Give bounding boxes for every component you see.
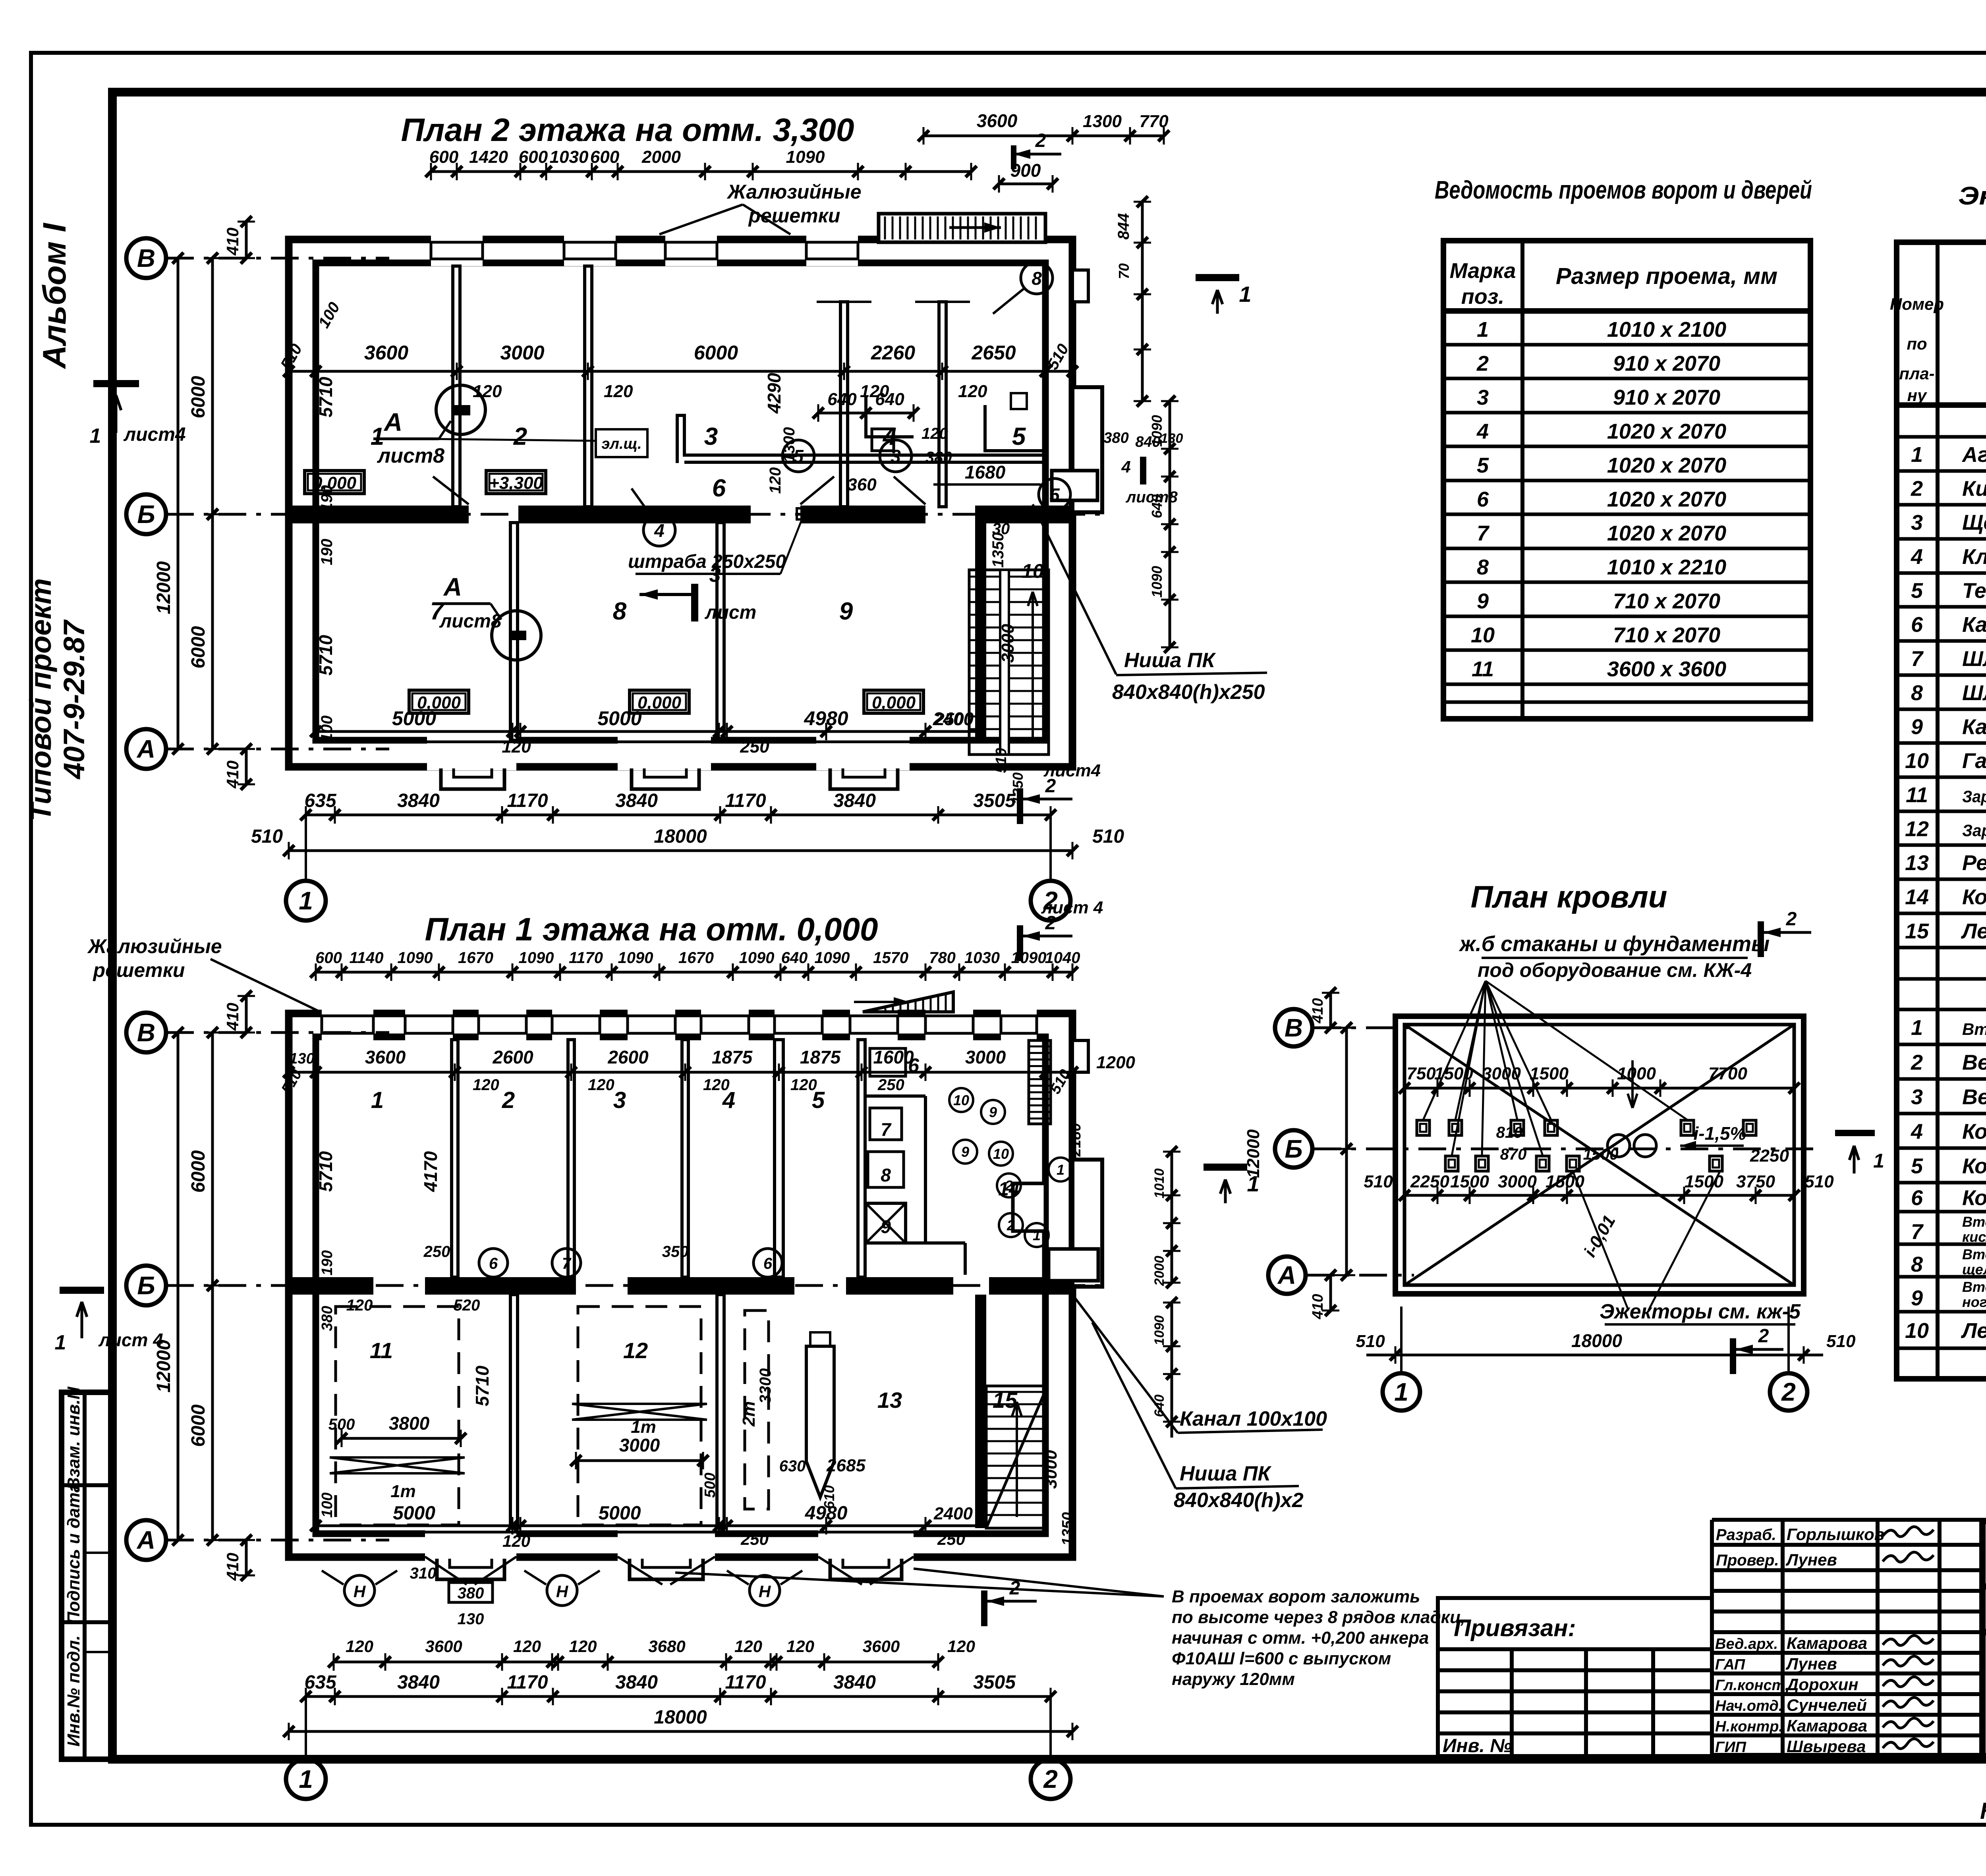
svg-text:5710: 5710	[315, 376, 336, 417]
svg-text:1: 1	[1239, 282, 1251, 307]
svg-text:410: 410	[223, 1553, 242, 1581]
svg-text:Н: Н	[556, 1582, 569, 1601]
svg-text:120: 120	[958, 382, 987, 401]
svg-text:Шлюз душевой: Шлюз душевой	[1962, 681, 1986, 705]
svg-text:1420: 1420	[469, 147, 508, 167]
svg-text:18000: 18000	[1571, 1330, 1622, 1351]
svg-text:2: 2	[1911, 477, 1923, 501]
svg-text:1020 x 2070: 1020 x 2070	[1607, 420, 1726, 444]
svg-text:эл.щ.: эл.щ.	[601, 436, 641, 452]
svg-text:Б: Б	[137, 500, 155, 529]
svg-text:8: 8	[1477, 556, 1489, 579]
svg-text:1т: 1т	[631, 1417, 656, 1437]
svg-text:407-9-29.87: 407-9-29.87	[58, 619, 91, 780]
svg-text:лист4: лист4	[123, 424, 185, 445]
svg-text:8: 8	[1911, 681, 1923, 705]
svg-text:1090: 1090	[1149, 566, 1165, 598]
svg-text:Горлышков: Горлышков	[1787, 1525, 1884, 1544]
svg-text:7: 7	[881, 1119, 892, 1140]
svg-text:18000: 18000	[654, 826, 707, 847]
svg-text:7: 7	[1911, 1220, 1924, 1244]
svg-text:поз.: поз.	[1461, 285, 1505, 309]
svg-text:3800: 3800	[389, 1413, 430, 1434]
svg-text:9: 9	[1911, 1286, 1923, 1310]
svg-text:5000: 5000	[393, 1503, 435, 1524]
svg-text:11: 11	[370, 1338, 393, 1363]
svg-text:3: 3	[704, 423, 718, 450]
svg-text:6000: 6000	[188, 1150, 209, 1193]
svg-text:120: 120	[734, 1637, 762, 1656]
svg-text:3840: 3840	[615, 790, 658, 811]
svg-text:14: 14	[1905, 885, 1929, 909]
svg-text:6000: 6000	[694, 342, 738, 364]
svg-text:1030: 1030	[550, 147, 589, 167]
svg-text:Кабина душевой: Кабина душевой	[1962, 715, 1986, 739]
svg-text:0,000: 0,000	[638, 693, 682, 712]
svg-text:1: 1	[1477, 318, 1489, 342]
svg-text:ГИП: ГИП	[1715, 1739, 1746, 1756]
svg-text:1090: 1090	[1149, 415, 1165, 447]
svg-text:под оборудование см. КЖ-4: под оборудование см. КЖ-4	[1478, 959, 1752, 981]
svg-text:2000: 2000	[641, 147, 681, 167]
svg-text:4: 4	[1121, 457, 1130, 476]
svg-text:640: 640	[875, 390, 904, 409]
svg-text:Жалюзийные: Жалюзийные	[726, 181, 861, 203]
svg-text:1090: 1090	[1011, 949, 1047, 967]
svg-text:2т: 2т	[739, 1401, 759, 1427]
svg-text:410: 410	[223, 1003, 242, 1031]
svg-text:10: 10	[953, 1092, 969, 1108]
svg-text:910 x 2070: 910 x 2070	[1613, 386, 1720, 409]
svg-text:1300: 1300	[1083, 112, 1122, 131]
svg-text:120: 120	[947, 1637, 975, 1656]
svg-text:6000: 6000	[188, 1404, 209, 1447]
svg-text:Зарядная кислотных аккумулятор: Зарядная кислотных аккумуляторов	[1962, 787, 1986, 806]
svg-text:Кладовая: Кладовая	[1962, 545, 1986, 569]
svg-text:1т: 1т	[390, 1482, 416, 1501]
svg-text:3840: 3840	[833, 790, 876, 811]
svg-text:В: В	[137, 1018, 155, 1047]
svg-text:3: 3	[613, 1087, 626, 1113]
svg-text:1670: 1670	[678, 949, 714, 967]
svg-text:3: 3	[1911, 511, 1923, 535]
svg-text:0,000: 0,000	[872, 693, 916, 712]
svg-text:1090: 1090	[519, 949, 554, 967]
svg-text:Щелочная: Щелочная	[1962, 511, 1986, 535]
svg-text:7: 7	[562, 1255, 572, 1272]
svg-text:Ниша ПК: Ниша ПК	[1124, 649, 1216, 672]
svg-text:410: 410	[223, 228, 242, 256]
svg-text:1: 1	[1911, 1016, 1923, 1040]
svg-text:А: А	[136, 1526, 155, 1554]
svg-text:2600: 2600	[492, 1047, 533, 1067]
svg-text:380: 380	[925, 449, 952, 466]
svg-text:350: 350	[662, 1243, 689, 1260]
svg-text:Гл.конст.: Гл.конст.	[1715, 1677, 1789, 1694]
svg-text:кислотных аккумуляторов: кислотных аккумуляторов	[1962, 1229, 1986, 1245]
svg-text:1875: 1875	[712, 1047, 753, 1067]
svg-text:Привязан:: Привязан:	[1454, 1615, 1576, 1641]
svg-text:i-1,5%: i-1,5%	[1694, 1123, 1746, 1144]
svg-text:500: 500	[702, 1473, 719, 1498]
svg-text:лист: лист	[705, 602, 757, 623]
svg-text:4: 4	[654, 520, 665, 541]
svg-text:6: 6	[908, 1054, 920, 1077]
svg-text:1670: 1670	[458, 949, 493, 967]
svg-text:120: 120	[569, 1637, 597, 1656]
svg-text:1020 x 2070: 1020 x 2070	[1607, 454, 1726, 477]
svg-text:5710: 5710	[472, 1365, 493, 1406]
svg-text:600: 600	[590, 147, 620, 167]
svg-text:0,000: 0,000	[313, 473, 357, 493]
svg-text:250: 250	[423, 1243, 450, 1260]
svg-text:3600: 3600	[863, 1637, 900, 1656]
svg-text:4290: 4290	[764, 372, 784, 414]
svg-text:600: 600	[519, 147, 548, 167]
svg-text:120: 120	[502, 737, 531, 757]
svg-text:1500: 1500	[1434, 1064, 1473, 1083]
svg-text:710 x 2070: 710 x 2070	[1613, 623, 1720, 647]
svg-text:2: 2	[1043, 1765, 1058, 1793]
svg-text:640: 640	[1149, 494, 1165, 518]
svg-text:4: 4	[722, 1087, 735, 1113]
svg-text:1: 1	[371, 1087, 384, 1113]
svg-text:11: 11	[1906, 783, 1928, 807]
svg-text:130: 130	[458, 1610, 484, 1628]
svg-text:В проемах ворот заложить: В проемах ворот заложить	[1172, 1587, 1420, 1606]
svg-text:Инв. №: Инв. №	[1443, 1735, 1512, 1756]
svg-text:наружу 120мм: наружу 120мм	[1172, 1669, 1295, 1689]
svg-text:7700: 7700	[1708, 1064, 1747, 1083]
svg-text:+3,300: +3,300	[489, 473, 543, 493]
svg-text:3000: 3000	[1041, 1450, 1061, 1489]
svg-text:510: 510	[1364, 1172, 1393, 1191]
svg-text:Лестничная клетка: Лестничная клетка	[1961, 1319, 1986, 1343]
svg-text:1090: 1090	[786, 147, 825, 167]
svg-text:1090: 1090	[398, 949, 433, 967]
svg-text:План 1 этажа на отм. 0,000: План 1 этажа на отм. 0,000	[425, 911, 878, 948]
svg-text:6: 6	[712, 475, 726, 502]
svg-text:2: 2	[1476, 352, 1489, 376]
svg-text:Альбом I: Альбом I	[37, 222, 73, 369]
svg-text:Марка: Марка	[1450, 259, 1516, 283]
svg-text:5: 5	[1012, 423, 1026, 450]
svg-text:Ремонтное отделение: Ремонтное отделение	[1962, 851, 1986, 875]
svg-text:3: 3	[1477, 386, 1489, 409]
svg-text:5: 5	[1911, 579, 1923, 603]
svg-text:3600: 3600	[977, 110, 1018, 131]
svg-text:630: 630	[779, 1457, 806, 1475]
svg-text:10: 10	[1022, 560, 1044, 582]
svg-text:2: 2	[1781, 1378, 1796, 1406]
svg-text:3600: 3600	[365, 1047, 406, 1067]
svg-text:Ф10АШ l=600 с выпуском: Ф10АШ l=600 с выпуском	[1172, 1649, 1391, 1668]
svg-text:410: 410	[1310, 998, 1326, 1023]
svg-text:Жалюзийные: Жалюзийные	[87, 935, 222, 957]
svg-text:Разраб.: Разраб.	[1716, 1526, 1776, 1544]
svg-text:2: 2	[502, 1087, 515, 1113]
svg-text:ну: ну	[1907, 386, 1928, 405]
svg-text:Второй свет помещения агрегатн: Второй свет помещения агрегатной	[1962, 1020, 1986, 1038]
svg-text:7: 7	[1477, 521, 1490, 545]
svg-text:План 2 этажа на отм. 3,300: План 2 этажа на отм. 3,300	[401, 112, 854, 148]
svg-text:3840: 3840	[833, 1672, 876, 1693]
svg-text:Б: Б	[1285, 1135, 1302, 1163]
svg-text:9: 9	[1477, 589, 1489, 613]
svg-text:2685: 2685	[826, 1456, 865, 1475]
svg-text:4170: 4170	[420, 1151, 441, 1192]
svg-text:Типовой проект: Типовой проект	[24, 578, 57, 821]
svg-text:Номер: Номер	[1890, 295, 1944, 313]
svg-text:4: 4	[1911, 1120, 1923, 1144]
svg-text:780: 780	[929, 949, 956, 967]
svg-text:9: 9	[881, 1216, 891, 1237]
svg-text:2: 2	[1009, 1578, 1020, 1599]
svg-text:4: 4	[1476, 420, 1489, 444]
svg-text:Подпись и дата: Подпись и дата	[64, 1483, 83, 1625]
svg-text:910 x 2070: 910 x 2070	[1613, 352, 1720, 376]
svg-text:3: 3	[709, 564, 721, 587]
svg-text:Кабина санузла: Кабина санузла	[1962, 613, 1986, 637]
svg-text:1875: 1875	[800, 1047, 841, 1067]
svg-text:1: 1	[1911, 443, 1923, 467]
svg-text:3840: 3840	[615, 1672, 658, 1693]
svg-text:1350: 1350	[1059, 1512, 1076, 1546]
svg-text:2600: 2600	[607, 1047, 649, 1067]
svg-text:3840: 3840	[397, 1672, 440, 1693]
svg-text:6: 6	[1911, 1186, 1923, 1210]
svg-text:600: 600	[429, 147, 459, 167]
svg-text:2250: 2250	[1410, 1172, 1449, 1191]
svg-text:Венткамера: Венткамера	[1962, 1051, 1986, 1075]
svg-text:120: 120	[513, 1637, 541, 1656]
svg-text:1200: 1200	[1096, 1053, 1135, 1072]
svg-text:Комната приема пищи: Комната приема пищи	[1962, 1154, 1986, 1178]
svg-text:11: 11	[1472, 657, 1494, 681]
svg-text:Лунев: Лунев	[1785, 1550, 1837, 1569]
svg-text:120: 120	[767, 467, 784, 494]
svg-text:5710: 5710	[315, 1151, 336, 1192]
svg-text:1140: 1140	[349, 949, 383, 967]
svg-text:1350: 1350	[989, 533, 1007, 568]
svg-text:190: 190	[318, 539, 336, 566]
svg-text:120: 120	[502, 1532, 530, 1550]
svg-text:6: 6	[489, 1255, 498, 1272]
svg-text:2: 2	[1005, 1177, 1013, 1194]
svg-text:3680: 3680	[648, 1637, 685, 1656]
svg-text:Н: Н	[354, 1582, 366, 1601]
svg-text:Второй свет помещения зарядной: Второй свет помещения зарядной	[1962, 1246, 1986, 1262]
svg-text:1090: 1090	[1152, 1315, 1167, 1345]
svg-text:380: 380	[458, 1585, 484, 1602]
svg-text:2260: 2260	[871, 342, 915, 364]
svg-text:решетки: решетки	[93, 959, 185, 981]
svg-text:10: 10	[993, 1146, 1009, 1162]
svg-text:1010: 1010	[1152, 1168, 1167, 1199]
svg-text:Тепловой ввод: Тепловой ввод	[1962, 579, 1986, 603]
svg-text:Копировал: Копировал	[1980, 1798, 1986, 1824]
svg-text:12: 12	[623, 1338, 648, 1363]
svg-text:770: 770	[1139, 112, 1169, 131]
svg-text:3: 3	[891, 446, 901, 467]
svg-text:710 x 2070: 710 x 2070	[1613, 589, 1720, 613]
svg-text:Нач.отд.: Нач.отд.	[1715, 1698, 1783, 1714]
svg-text:В: В	[137, 244, 155, 272]
svg-text:ного отделения: ного отделения	[1962, 1294, 1986, 1310]
svg-text:5710: 5710	[315, 635, 336, 676]
svg-text:1: 1	[1057, 1162, 1064, 1178]
svg-text:4: 4	[1911, 545, 1923, 569]
svg-text:Зарядная щелочных аккумуляторо: Зарядная щелочных аккумуляторов	[1962, 821, 1986, 840]
svg-text:А: А	[136, 735, 155, 763]
svg-text:Агрегатная: Агрегатная	[1961, 443, 1986, 467]
svg-text:Провер.: Провер.	[1716, 1552, 1779, 1569]
svg-text:1500: 1500	[1450, 1172, 1489, 1191]
svg-text:635: 635	[304, 1672, 336, 1693]
svg-text:Экспликация помещений: Экспликация помещений	[1958, 181, 1986, 210]
svg-text:12: 12	[1905, 817, 1929, 841]
svg-text:1680: 1680	[965, 462, 1006, 483]
svg-text:7: 7	[430, 598, 445, 625]
svg-text:Н.контр.: Н.контр.	[1715, 1718, 1783, 1735]
svg-text:640: 640	[827, 390, 857, 409]
svg-text:1170: 1170	[507, 790, 548, 811]
svg-text:2: 2	[513, 423, 527, 450]
svg-text:1570: 1570	[873, 949, 908, 967]
svg-text:640: 640	[1152, 1395, 1167, 1417]
svg-text:лист8: лист8	[377, 444, 444, 467]
svg-text:5000: 5000	[597, 707, 641, 730]
svg-text:1: 1	[1033, 1227, 1041, 1243]
svg-text:15: 15	[1905, 919, 1929, 943]
svg-text:1090: 1090	[739, 949, 775, 967]
svg-text:18000: 18000	[654, 1707, 707, 1728]
svg-text:510: 510	[1826, 1332, 1856, 1351]
svg-text:250: 250	[740, 1530, 769, 1548]
svg-text:штраба 250х250: штраба 250х250	[628, 551, 786, 572]
svg-text:4980: 4980	[805, 1503, 848, 1524]
svg-text:Канал 100х100: Канал 100х100	[1180, 1407, 1327, 1430]
svg-text:510: 510	[993, 748, 1010, 773]
svg-text:640: 640	[781, 949, 808, 967]
svg-text:9: 9	[839, 598, 853, 625]
svg-text:3600 x 3600: 3600 x 3600	[1607, 657, 1726, 681]
svg-text:1: 1	[55, 1331, 66, 1354]
svg-text:Сунчелей: Сунчелей	[1787, 1696, 1867, 1714]
svg-text:Камарова: Камарова	[1787, 1716, 1867, 1735]
svg-text:9: 9	[1911, 715, 1923, 739]
svg-text:1090: 1090	[815, 949, 850, 967]
svg-text:Гардероб: Гардероб	[1962, 749, 1986, 773]
svg-text:2000: 2000	[1152, 1256, 1167, 1286]
svg-text:190: 190	[319, 1250, 336, 1275]
svg-text:2: 2	[1035, 130, 1046, 151]
svg-text:70: 70	[1116, 263, 1132, 279]
svg-text:1170: 1170	[725, 790, 766, 811]
svg-text:пла-: пла-	[1899, 364, 1934, 383]
svg-text:Камарова: Камарова	[1787, 1634, 1867, 1652]
svg-text:360: 360	[847, 475, 877, 494]
svg-text:120: 120	[346, 1637, 373, 1656]
svg-text:3000: 3000	[619, 1435, 660, 1455]
svg-text:4980: 4980	[804, 707, 848, 730]
svg-text:120: 120	[922, 425, 948, 442]
svg-text:Инв.№ подл.: Инв.№ подл.	[64, 1635, 83, 1747]
svg-text:510: 510	[1804, 1172, 1834, 1191]
svg-text:5: 5	[812, 1087, 825, 1113]
svg-text:Лестничная клетка: Лестничная клетка	[1961, 919, 1986, 943]
svg-text:Кислотная: Кислотная	[1962, 477, 1986, 501]
svg-text:120: 120	[588, 1076, 614, 1094]
svg-text:Дорохин: Дорохин	[1785, 1675, 1858, 1694]
svg-text:1040: 1040	[1045, 949, 1080, 967]
svg-text:380: 380	[1103, 430, 1128, 446]
svg-text:Ниша ПК: Ниша ПК	[1180, 1462, 1271, 1485]
svg-text:щелочных аккумуляторов: щелочных аккумуляторов	[1962, 1261, 1986, 1278]
svg-text:8: 8	[881, 1165, 891, 1185]
svg-text:3600: 3600	[425, 1637, 462, 1656]
svg-text:120: 120	[473, 1076, 499, 1094]
svg-text:3000: 3000	[1498, 1172, 1537, 1191]
svg-text:250: 250	[740, 737, 769, 757]
svg-text:Н: Н	[759, 1582, 771, 1601]
svg-text:3000: 3000	[1482, 1064, 1521, 1083]
svg-text:10: 10	[1905, 749, 1929, 773]
svg-text:1030: 1030	[964, 949, 1000, 967]
svg-text:Лунев: Лунев	[1785, 1654, 1837, 1673]
svg-text:План кровли: План кровли	[1471, 879, 1667, 914]
svg-text:3840: 3840	[397, 790, 440, 811]
svg-text:750: 750	[1406, 1064, 1436, 1083]
svg-text:6: 6	[1911, 613, 1923, 637]
svg-text:5: 5	[1477, 454, 1489, 477]
svg-text:Коридор: Коридор	[1962, 1186, 1986, 1210]
svg-text:3300: 3300	[757, 1368, 774, 1404]
svg-text:9: 9	[989, 1104, 997, 1120]
svg-text:1020 x 2070: 1020 x 2070	[1607, 488, 1726, 511]
svg-text:2: 2	[1786, 909, 1797, 930]
svg-text:2400: 2400	[933, 708, 974, 729]
svg-text:844: 844	[1115, 213, 1132, 240]
svg-text:А: А	[1277, 1261, 1296, 1289]
svg-text:7: 7	[1911, 647, 1924, 671]
svg-text:Размер проема, мм: Размер проема, мм	[1556, 263, 1777, 289]
svg-text:1: 1	[1873, 1150, 1884, 1172]
svg-text:1010 x 2100: 1010 x 2100	[1607, 318, 1726, 342]
svg-text:635: 635	[304, 790, 336, 811]
svg-text:120: 120	[815, 503, 845, 522]
svg-text:6: 6	[1477, 488, 1489, 511]
svg-text:1: 1	[90, 425, 101, 448]
svg-text:2: 2	[1758, 1326, 1769, 1347]
svg-text:3600: 3600	[364, 342, 408, 364]
svg-text:410: 410	[1310, 1294, 1326, 1319]
svg-text:2650: 2650	[971, 342, 1016, 364]
svg-text:6000: 6000	[188, 626, 209, 668]
svg-text:3000: 3000	[965, 1047, 1006, 1067]
svg-text:Вед.арх.: Вед.арх.	[1715, 1636, 1778, 1652]
svg-text:840х840(h)х250: 840х840(h)х250	[1112, 681, 1265, 704]
svg-text:лист8: лист8	[439, 611, 502, 632]
svg-text:13: 13	[877, 1388, 902, 1413]
svg-text:Б: Б	[137, 1271, 155, 1300]
svg-text:1: 1	[299, 1765, 313, 1793]
svg-text:1010 x 2210: 1010 x 2210	[1607, 556, 1726, 579]
svg-text:2180: 2180	[1067, 1123, 1084, 1157]
svg-text:12000: 12000	[153, 561, 174, 614]
svg-text:310: 310	[410, 1565, 437, 1582]
svg-text:лист 4: лист 4	[1041, 898, 1103, 917]
